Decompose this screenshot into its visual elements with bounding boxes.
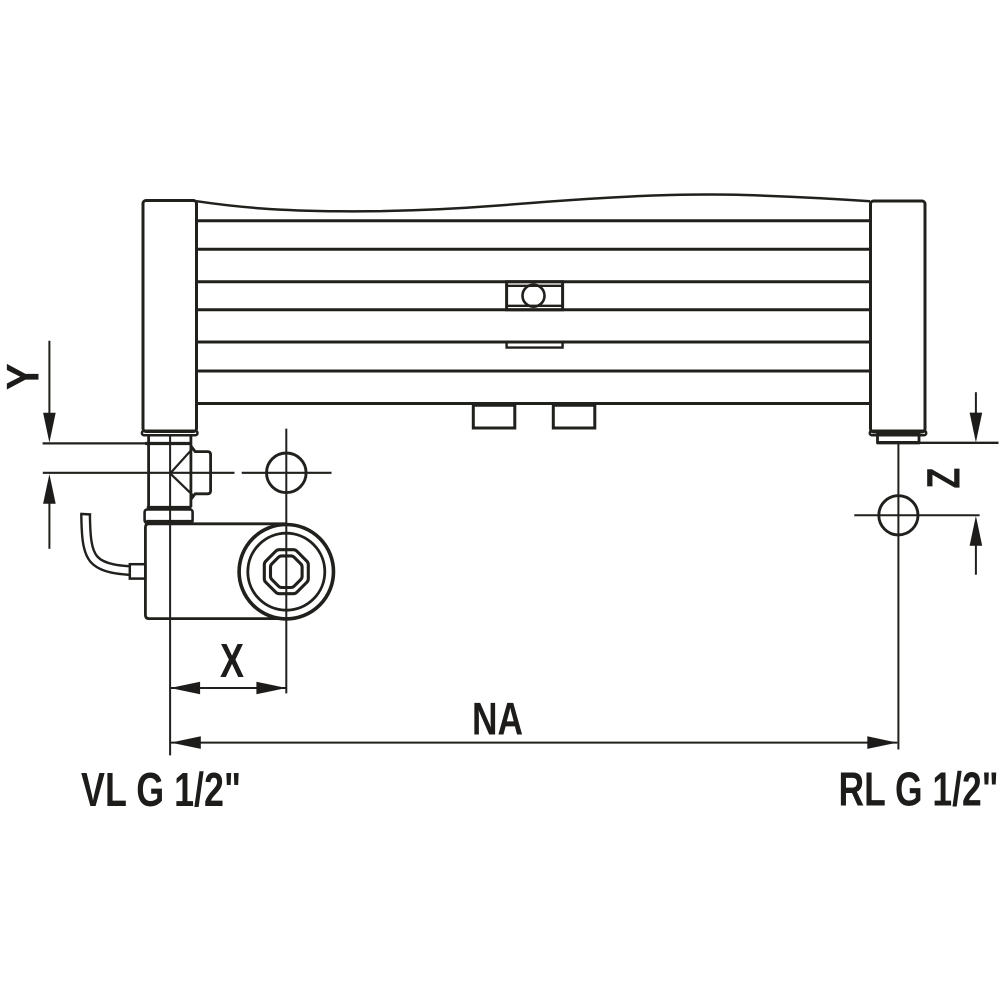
svg-text:X: X (220, 635, 244, 688)
air vent screw circle (523, 285, 545, 307)
Z dimension lower shaft (975, 545, 977, 575)
X dimension arrowhead left (170, 682, 200, 695)
radiator tube line 5 (197, 341, 871, 344)
left tailpiece tube right edge (189, 435, 192, 508)
heater hex socket (271, 556, 303, 588)
air vent inner top line (507, 285, 563, 287)
svg-text:NA: NA (472, 693, 523, 745)
Y dimension lower shaft (48, 503, 50, 549)
NA dimension line (171, 742, 898, 744)
bottom bracket tab left (473, 404, 515, 429)
radiator tube line 1 (197, 219, 871, 222)
right port circle (879, 496, 918, 535)
svg-text:Y: Y (0, 363, 49, 390)
heating element cable (86, 514, 146, 571)
Y dimension upper shaft (48, 341, 50, 414)
left tailpiece tube left edge (147, 435, 150, 508)
left valve horizontal centerline segment 2 (242, 472, 332, 474)
valve T body right protrusion (191, 446, 211, 499)
svg-text:VL G 1/2": VL G 1/2" (81, 764, 241, 817)
heating element block (145, 524, 286, 619)
radiator bottom edge (197, 402, 871, 405)
right connection centerline vertical (897, 443, 899, 750)
Y dimension arrowhead down (43, 413, 56, 443)
heater second circle (248, 533, 325, 610)
X dimension arrowhead right (256, 682, 286, 695)
air vent inner bottom line (507, 305, 563, 307)
radiator tube line 6 (197, 370, 871, 373)
cable gland (130, 564, 146, 578)
union nut body (145, 510, 193, 523)
Z top extension line (920, 442, 999, 444)
valve cone diagonal upper (170, 449, 192, 473)
right collector post (871, 201, 926, 432)
union nut thick top line (147, 506, 192, 510)
svg-text:Z: Z (916, 468, 969, 489)
Y top extension line (43, 442, 146, 444)
cable end cap (80, 513, 91, 516)
right port horizontal centerline (854, 514, 979, 516)
Z dimension arrowhead down (970, 413, 983, 443)
bottom bracket tab left thick top (473, 402, 515, 407)
radiator wavy top edge (197, 194, 871, 211)
left valve vertical centerline (169, 435, 171, 756)
right tailpiece cap thick bottom (877, 441, 920, 444)
air vent fitting body (507, 282, 563, 310)
left port circle vertical centerline (285, 429, 287, 694)
union nut thick bottom line (146, 520, 192, 524)
X dimension line (170, 687, 286, 689)
right tailpiece cap (878, 435, 920, 443)
left valve horizontal centerline segment 1 (43, 472, 235, 474)
svg-text:RL G 1/2": RL G 1/2" (839, 764, 999, 817)
blind plug tab under line 5 (507, 342, 563, 348)
NA dimension arrowhead left (171, 736, 201, 749)
right post foot (870, 431, 926, 436)
left post foot (142, 431, 198, 436)
left collector post (143, 201, 197, 432)
valve cone diagonal lower (170, 473, 193, 495)
Z dimension arrowhead up (970, 516, 983, 546)
left port circle (267, 453, 307, 493)
radiator tube line 2 (197, 248, 871, 251)
radiator tube line 3 (197, 280, 871, 283)
bottom bracket tab right thick top (553, 402, 595, 407)
NA dimension arrowhead right (867, 736, 897, 749)
Y dimension arrowhead up (43, 474, 56, 504)
Z dimension upper shaft (975, 392, 977, 413)
heater outer circle (239, 525, 333, 619)
heater octagon ring (264, 550, 308, 594)
bottom bracket tab right (553, 404, 595, 429)
radiator tube line 4 (197, 308, 871, 311)
left tailpiece thick collar line (145, 442, 191, 445)
